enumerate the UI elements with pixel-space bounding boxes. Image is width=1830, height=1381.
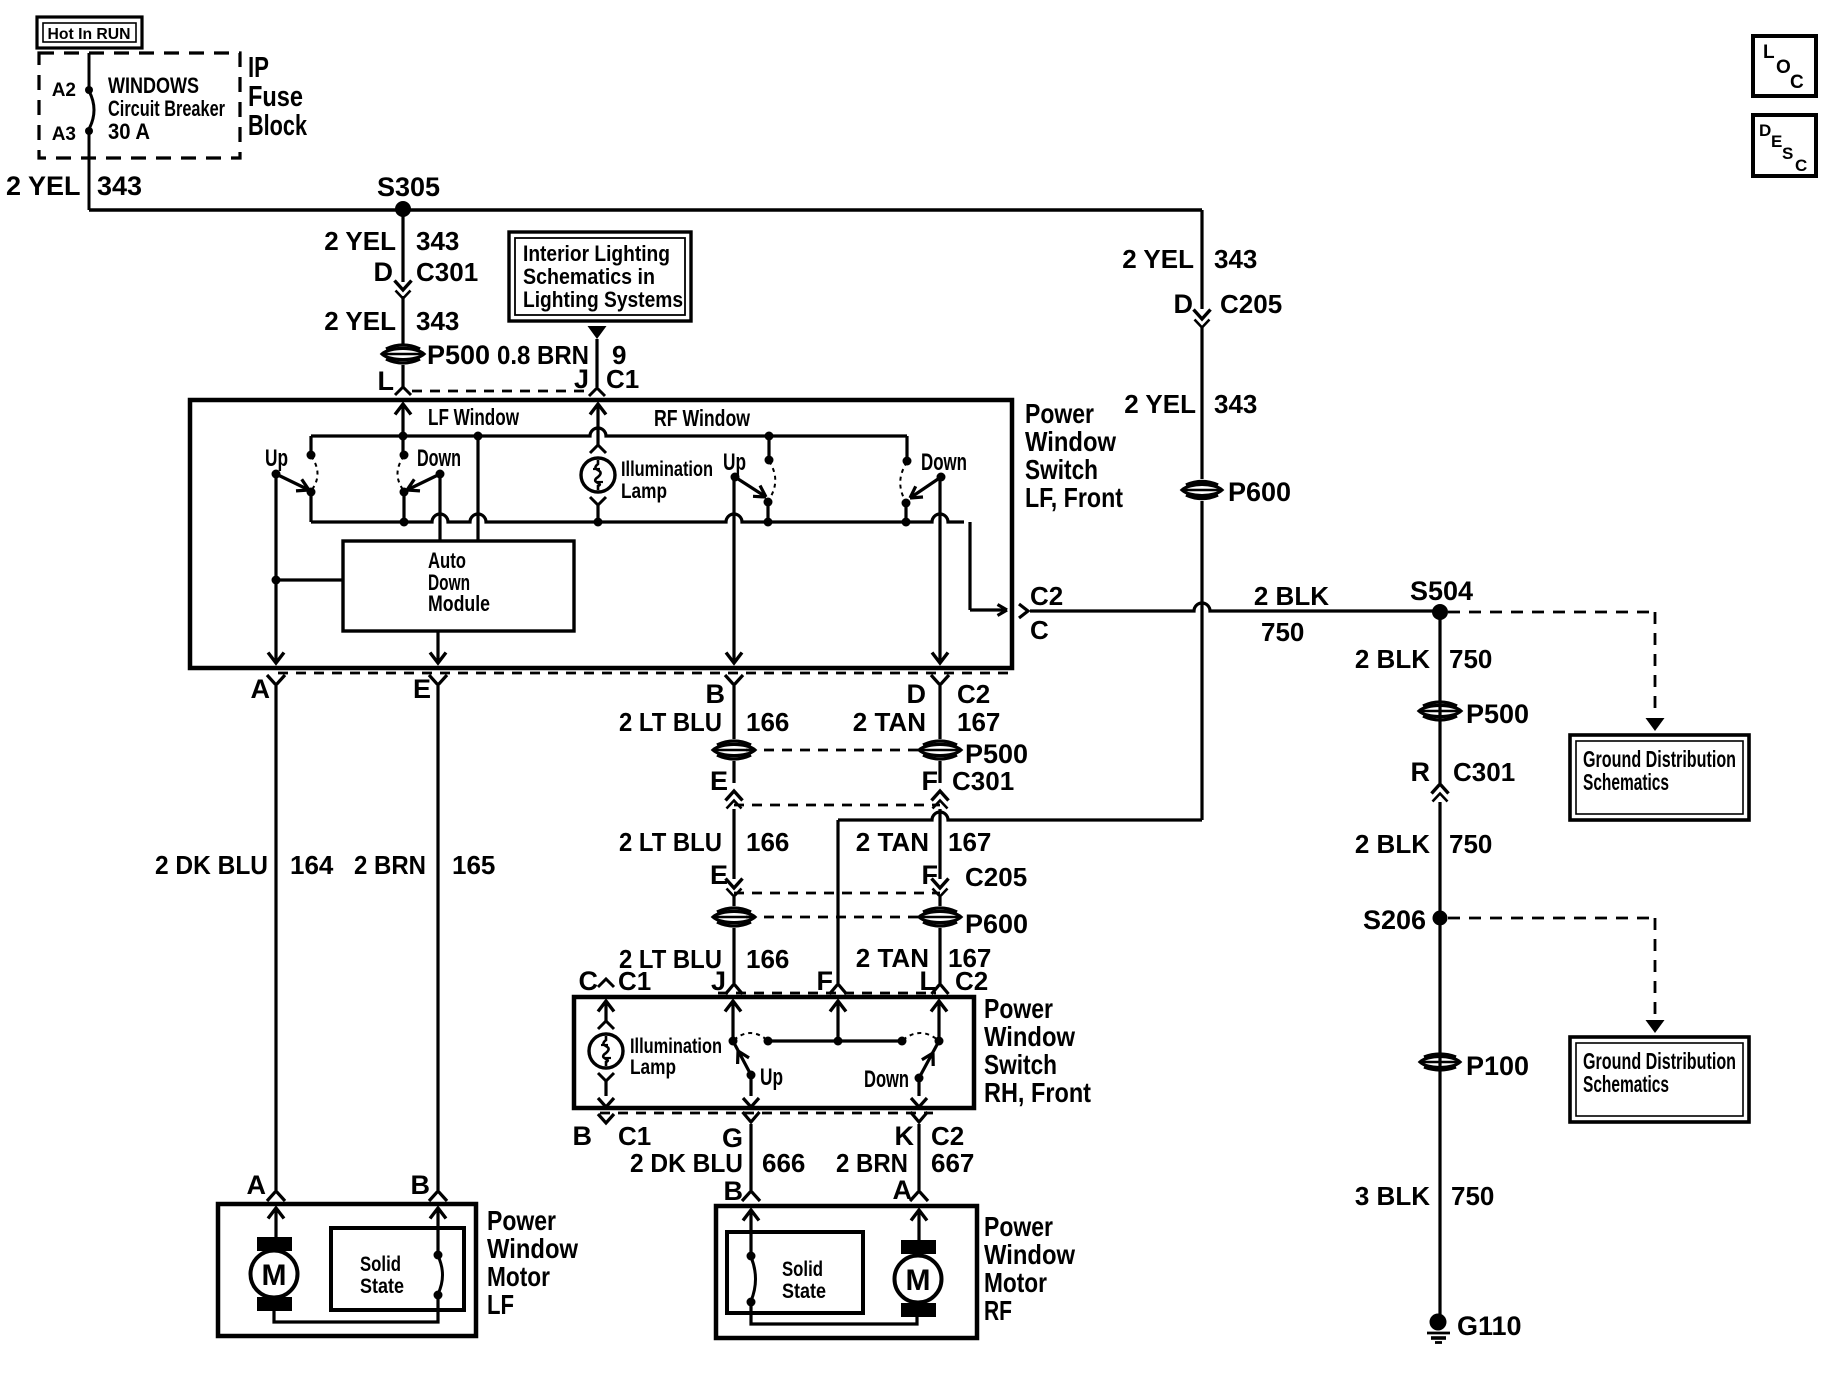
svg-text:Motor: Motor	[487, 1261, 550, 1292]
svg-text:Window: Window	[984, 1021, 1075, 1052]
svg-text:343: 343	[416, 226, 459, 256]
svg-text:2 BLK: 2 BLK	[1355, 644, 1430, 674]
svg-text:C1: C1	[618, 1121, 651, 1151]
svg-text:2 YEL: 2 YEL	[1122, 244, 1194, 274]
svg-text:C2: C2	[1030, 581, 1063, 611]
svg-text:A2: A2	[52, 80, 76, 101]
svg-text:3 BLK: 3 BLK	[1355, 1181, 1430, 1211]
svg-text:2 BRN: 2 BRN	[354, 850, 426, 880]
svg-text:30 A: 30 A	[108, 119, 150, 144]
svg-text:D: D	[374, 257, 394, 287]
svg-text:167: 167	[948, 827, 991, 857]
svg-text:C: C	[1790, 72, 1804, 93]
svg-text:Fuse: Fuse	[248, 81, 303, 113]
svg-text:B: B	[411, 1170, 431, 1200]
svg-text:A: A	[893, 1175, 913, 1205]
svg-text:667: 667	[931, 1148, 974, 1178]
svg-text:M: M	[906, 1264, 931, 1297]
svg-text:Solid: Solid	[360, 1253, 401, 1276]
svg-text:O: O	[1776, 57, 1791, 78]
svg-text:F: F	[817, 966, 834, 996]
svg-text:Down: Down	[921, 449, 967, 476]
svg-text:Power: Power	[487, 1205, 556, 1236]
svg-text:2 TAN: 2 TAN	[853, 707, 926, 737]
svg-text:Hot In RUN: Hot In RUN	[48, 26, 131, 43]
svg-text:Illumination: Illumination	[630, 1035, 722, 1058]
svg-text:750: 750	[1449, 644, 1492, 674]
svg-text:S: S	[1782, 144, 1793, 163]
svg-text:State: State	[782, 1280, 826, 1303]
svg-text:F: F	[922, 860, 939, 890]
svg-text:Interior Lighting: Interior Lighting	[523, 241, 670, 266]
svg-text:M: M	[262, 1259, 287, 1292]
svg-text:L: L	[1763, 42, 1775, 63]
svg-text:LF, Front: LF, Front	[1025, 482, 1123, 513]
svg-text:Power: Power	[984, 993, 1053, 1024]
svg-text:666: 666	[762, 1148, 805, 1178]
svg-text:P600: P600	[965, 909, 1028, 939]
svg-text:State: State	[360, 1275, 404, 1298]
svg-text:343: 343	[1214, 389, 1257, 419]
svg-text:P100: P100	[1466, 1051, 1529, 1081]
svg-text:Switch: Switch	[984, 1049, 1057, 1080]
svg-text:R: R	[1411, 757, 1431, 787]
svg-text:B: B	[573, 1121, 593, 1151]
svg-text:166: 166	[746, 707, 789, 737]
svg-text:C2: C2	[955, 966, 988, 996]
svg-text:J: J	[711, 966, 726, 996]
svg-text:E: E	[710, 766, 728, 796]
svg-text:Up: Up	[723, 449, 746, 476]
svg-text:Lamp: Lamp	[630, 1056, 676, 1079]
svg-text:2 LT BLU: 2 LT BLU	[619, 707, 722, 737]
svg-text:S305: S305	[377, 172, 440, 202]
svg-text:L: L	[378, 366, 395, 396]
svg-text:B: B	[706, 679, 726, 709]
svg-text:RF: RF	[984, 1295, 1012, 1326]
svg-text:750: 750	[1449, 829, 1492, 859]
svg-text:C301: C301	[1453, 757, 1515, 787]
svg-text:343: 343	[97, 171, 142, 201]
svg-text:Lighting Systems: Lighting Systems	[523, 287, 683, 312]
svg-text:Down: Down	[417, 445, 461, 472]
svg-text:A3: A3	[52, 124, 76, 145]
svg-text:Schematics: Schematics	[1583, 1071, 1669, 1097]
svg-text:2 DK BLU: 2 DK BLU	[155, 850, 268, 880]
svg-text:Circuit Breaker: Circuit Breaker	[108, 96, 225, 121]
svg-text:E: E	[413, 674, 431, 704]
svg-text:Window: Window	[487, 1233, 578, 1264]
svg-text:C1: C1	[618, 966, 651, 996]
svg-text:A: A	[247, 1170, 267, 1200]
svg-text:P500: P500	[427, 340, 490, 370]
svg-text:Window: Window	[984, 1239, 1075, 1270]
svg-text:G110: G110	[1457, 1311, 1522, 1341]
svg-text:C301: C301	[952, 766, 1014, 796]
svg-text:J: J	[574, 364, 589, 394]
svg-text:C301: C301	[416, 257, 478, 287]
svg-text:Schematics: Schematics	[1583, 769, 1669, 795]
svg-text:C: C	[1795, 156, 1807, 175]
svg-text:E: E	[710, 860, 728, 890]
svg-text:Up: Up	[760, 1064, 783, 1091]
svg-text:2 BLK: 2 BLK	[1254, 581, 1329, 611]
svg-text:C1: C1	[606, 364, 639, 394]
svg-text:WINDOWS: WINDOWS	[108, 73, 199, 98]
svg-text:C: C	[579, 966, 599, 996]
svg-text:C: C	[1030, 615, 1049, 645]
svg-text:343: 343	[416, 306, 459, 336]
svg-text:S206: S206	[1363, 905, 1426, 935]
svg-text:S504: S504	[1410, 576, 1473, 606]
svg-text:L: L	[920, 966, 937, 996]
svg-text:2 YEL: 2 YEL	[6, 171, 81, 201]
svg-text:Block: Block	[248, 110, 308, 142]
svg-text:Up: Up	[265, 445, 288, 472]
svg-text:2 LT BLU: 2 LT BLU	[619, 827, 722, 857]
svg-text:Power: Power	[1025, 398, 1094, 429]
svg-text:2 BRN: 2 BRN	[836, 1148, 908, 1178]
svg-text:RH, Front: RH, Front	[984, 1077, 1091, 1108]
svg-text:P500: P500	[965, 739, 1028, 769]
svg-text:2 DK BLU: 2 DK BLU	[630, 1148, 743, 1178]
svg-text:167: 167	[957, 707, 1000, 737]
svg-text:Solid: Solid	[782, 1258, 823, 1281]
svg-text:C205: C205	[965, 862, 1027, 892]
svg-text:2 TAN: 2 TAN	[856, 943, 929, 973]
svg-text:LF: LF	[487, 1289, 514, 1320]
svg-text:C2: C2	[957, 679, 990, 709]
svg-text:2 YEL: 2 YEL	[324, 306, 396, 336]
svg-text:Power: Power	[984, 1211, 1053, 1242]
svg-text:P600: P600	[1228, 477, 1291, 507]
svg-text:IP: IP	[248, 52, 269, 84]
svg-text:2 YEL: 2 YEL	[324, 226, 396, 256]
svg-text:Down: Down	[864, 1066, 909, 1093]
svg-text:RF Window: RF Window	[654, 405, 750, 431]
svg-text:166: 166	[746, 827, 789, 857]
svg-text:Illumination: Illumination	[621, 458, 713, 481]
svg-text:P500: P500	[1466, 699, 1529, 729]
svg-text:166: 166	[746, 944, 789, 974]
svg-text:K: K	[895, 1121, 915, 1151]
svg-text:165: 165	[452, 850, 495, 880]
svg-text:Switch: Switch	[1025, 454, 1098, 485]
svg-text:D: D	[907, 679, 927, 709]
svg-text:2 TAN: 2 TAN	[856, 827, 929, 857]
svg-text:LF Window: LF Window	[428, 404, 519, 430]
svg-text:B: B	[724, 1176, 744, 1206]
svg-text:2 BLK: 2 BLK	[1355, 829, 1430, 859]
svg-text:Module: Module	[428, 591, 490, 616]
svg-text:C2: C2	[931, 1121, 964, 1151]
svg-text:164: 164	[290, 850, 334, 880]
svg-text:F: F	[922, 766, 939, 796]
svg-text:D: D	[1759, 121, 1771, 140]
svg-text:Motor: Motor	[984, 1267, 1047, 1298]
svg-text:Schematics in: Schematics in	[523, 264, 655, 289]
svg-text:E: E	[1771, 132, 1782, 151]
svg-text:750: 750	[1261, 617, 1304, 647]
svg-text:750: 750	[1451, 1181, 1494, 1211]
svg-text:343: 343	[1214, 244, 1257, 274]
svg-text:2 YEL: 2 YEL	[1124, 389, 1196, 419]
svg-text:D: D	[1174, 289, 1194, 319]
svg-text:A: A	[251, 674, 271, 704]
svg-text:Window: Window	[1025, 426, 1116, 457]
svg-text:Lamp: Lamp	[621, 480, 667, 503]
svg-text:C205: C205	[1220, 289, 1282, 319]
